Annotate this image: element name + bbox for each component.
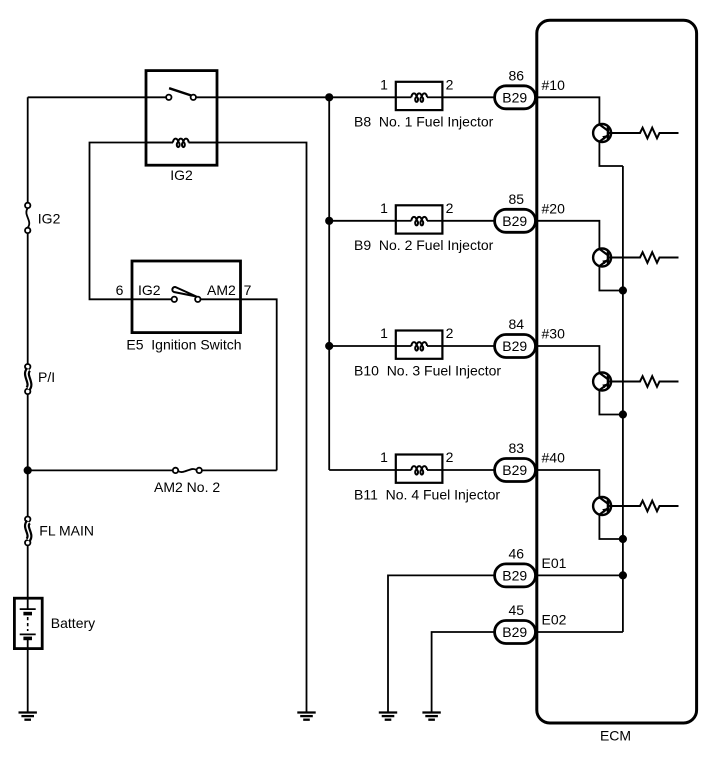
- transistor Q4 (injector 4 driver): [593, 497, 611, 515]
- relay IG2 coil: [146, 139, 217, 148]
- fuse AM2 No. 2: [173, 468, 202, 473]
- svg-text:2: 2: [446, 76, 454, 92]
- svg-text:#20: #20: [542, 200, 566, 216]
- svg-text:B29: B29: [502, 567, 527, 583]
- svg-text:2: 2: [446, 200, 454, 216]
- wire: connector into ECM to transistor collector: [536, 221, 600, 249]
- wire: common emitter bus down to E02: [622, 166, 624, 632]
- svg-text:FL MAIN: FL MAIN: [39, 523, 94, 539]
- node: junction on battery rail: [25, 467, 31, 473]
- svg-text:IG2: IG2: [138, 282, 161, 298]
- injector B9 No. 2 Fuel Injector: [396, 205, 443, 233]
- node: bus junction row 2: [326, 218, 332, 224]
- svg-text:Battery: Battery: [51, 615, 95, 631]
- switch E5 contacts and blade: [132, 287, 241, 302]
- wire: top feed from battery rail to IG2 relay switch: [28, 96, 146, 98]
- wire: battery rail to AM2 No.2 fuse: [28, 469, 173, 471]
- wire: row 1 feed to injector: [217, 96, 396, 98]
- svg-text:2: 2: [446, 449, 454, 465]
- svg-text:1: 1: [380, 325, 388, 341]
- svg-text:ECM: ECM: [600, 727, 631, 743]
- svg-text:#40: #40: [542, 450, 566, 466]
- svg-text:B29: B29: [502, 624, 527, 640]
- wire: injector pin 2 to connector: [442, 345, 494, 347]
- connector B29 E01: [495, 564, 536, 587]
- connector B29 E02: [495, 621, 536, 644]
- wire: left battery rail vertical segments: [27, 97, 29, 712]
- svg-text:46: 46: [509, 545, 525, 561]
- svg-text:IG2: IG2: [170, 167, 193, 183]
- ground: E01 ground: [379, 713, 397, 720]
- wire: connector into ECM to transistor collector: [536, 346, 600, 373]
- connector B29 row 2: [495, 209, 536, 232]
- svg-text:AM2 No. 2: AM2 No. 2: [154, 479, 220, 495]
- wire: row 2 feed to injector: [329, 220, 396, 222]
- svg-text:B29: B29: [502, 89, 527, 105]
- svg-text:#10: #10: [542, 77, 566, 93]
- wire: AM2 terminal right and down to AM2 No.2 fuse line: [241, 299, 277, 470]
- svg-text:B8 No. 1 Fuel Injector: B8 No. 1 Fuel Injector: [354, 114, 494, 130]
- relay IG2 switch contact: [146, 88, 217, 100]
- svg-text:2: 2: [446, 325, 454, 341]
- svg-text:83: 83: [509, 440, 525, 456]
- svg-text:E02: E02: [542, 612, 567, 628]
- fusible link P/I (left rail): [25, 364, 30, 394]
- injector B8 No. 1 Fuel Injector: [396, 82, 443, 110]
- node: bus junction row 1: [326, 94, 332, 100]
- node: emitter bus junction 4: [620, 536, 626, 542]
- svg-text:B11 No. 4 Fuel Injector: B11 No. 4 Fuel Injector: [354, 486, 500, 502]
- svg-text:IG2: IG2: [38, 210, 61, 226]
- node: emitter bus junction 2: [620, 287, 626, 293]
- transistor Q3 (injector 3 driver): [593, 373, 611, 391]
- wire: emitter to common bus: [599, 142, 623, 166]
- node: bus junction row 3: [326, 343, 332, 349]
- wire: relay coil left to ignition switch IG2 terminal: [90, 143, 174, 300]
- svg-text:84: 84: [509, 316, 525, 332]
- svg-text:85: 85: [509, 191, 525, 207]
- wire: row 3 feed to injector: [329, 345, 396, 347]
- resistor R2 (base): [608, 252, 679, 263]
- wire: connector into ECM to transistor collector: [536, 470, 600, 497]
- wire: row 4 feed to injector: [329, 469, 396, 471]
- wire: emitter to common bus: [599, 515, 623, 539]
- svg-text:B29: B29: [502, 213, 527, 229]
- svg-text:E01: E01: [542, 555, 567, 571]
- resistor R3 (base): [608, 376, 679, 387]
- resistor R1 (base): [608, 128, 679, 139]
- svg-text:B10 No. 3 Fuel Injector: B10 No. 3 Fuel Injector: [354, 362, 501, 378]
- svg-text:6: 6: [116, 282, 124, 298]
- wire: fuse to ignition switch drop: [202, 469, 277, 471]
- switch E5 Ignition Switch box: [132, 261, 241, 333]
- transistor Q2 (injector 2 driver): [593, 249, 611, 267]
- wire: emitter to common bus: [599, 390, 623, 414]
- wire: injector pin 2 to connector: [442, 220, 494, 222]
- wire: emitter to common bus: [599, 266, 623, 290]
- svg-text:B29: B29: [502, 462, 527, 478]
- svg-text:1: 1: [380, 200, 388, 216]
- wire: relay coil right down to ground: [189, 143, 307, 713]
- svg-text:P/I: P/I: [38, 369, 55, 385]
- connector B29 row 4: [495, 459, 536, 482]
- wire: injector pin 2 to connector: [442, 469, 494, 471]
- node: emitter bus junction 3: [620, 411, 626, 417]
- relay IG2 box: [146, 71, 217, 166]
- wire: E02 to emitter bus: [536, 631, 623, 633]
- fuse IG2 (left rail): [25, 203, 30, 233]
- ECM box: [537, 20, 697, 723]
- svg-text:1: 1: [380, 449, 388, 465]
- svg-text:#30: #30: [542, 326, 566, 342]
- svg-text:45: 45: [509, 602, 525, 618]
- ground: battery ground: [19, 713, 37, 720]
- fusible link FL MAIN (left rail): [25, 517, 30, 546]
- connector B29 row 3: [495, 335, 536, 358]
- wire: injector supply bus: [328, 97, 330, 470]
- ground: E02 ground: [422, 713, 440, 720]
- svg-text:7: 7: [244, 282, 252, 298]
- battery: [14, 598, 42, 648]
- wire: injector pin 2 to connector: [442, 96, 494, 98]
- svg-text:B29: B29: [502, 338, 527, 354]
- ground: relay coil ground: [297, 713, 315, 720]
- svg-text:86: 86: [509, 67, 525, 83]
- wire: E01 to emitter bus: [536, 574, 623, 576]
- injector B11 No. 4 Fuel Injector: [396, 455, 443, 483]
- resistor R4 (base): [608, 501, 679, 512]
- wire: connector into ECM to transistor collector: [536, 97, 600, 124]
- wire: E02 to ground: [432, 632, 495, 713]
- wire: E01 to ground: [388, 575, 495, 712]
- svg-text:AM2: AM2: [207, 282, 236, 298]
- connector B29 row 1: [495, 86, 536, 109]
- node: E01 bus junction: [620, 572, 626, 578]
- svg-text:B9 No. 2 Fuel Injector: B9 No. 2 Fuel Injector: [354, 237, 494, 253]
- injector B10 No. 3 Fuel Injector: [396, 331, 443, 359]
- transistor Q1 (injector 1 driver): [593, 124, 611, 142]
- svg-text:1: 1: [380, 76, 388, 92]
- svg-text:E5 Ignition Switch: E5 Ignition Switch: [126, 337, 241, 353]
